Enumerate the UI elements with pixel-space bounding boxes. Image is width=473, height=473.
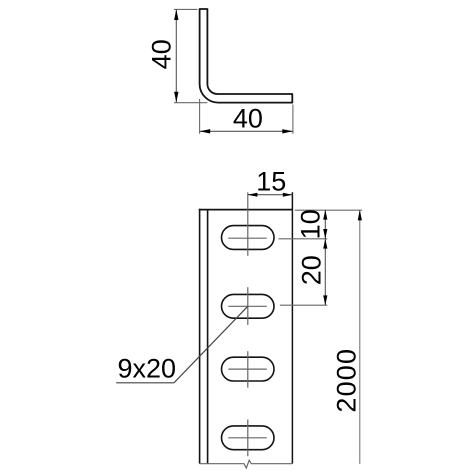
arrow right	[282, 129, 293, 133]
arrow up	[174, 9, 178, 20]
strip top edge	[199, 209, 293, 211]
arrow down	[323, 295, 327, 305]
arrow right (outward)	[283, 193, 293, 197]
top edge extension line to right (for dims 10 and 2000)	[295, 209, 362, 211]
vertical dim 40: extension line bottom	[174, 102, 207, 104]
svg-text:9x20: 9x20	[118, 353, 177, 383]
arrow up	[323, 239, 327, 249]
L profile outline	[200, 9, 293, 103]
slot 1 horizontal centerline dash	[228, 237, 266, 239]
arrow down	[323, 229, 327, 239]
svg-text:40: 40	[233, 103, 263, 133]
dim 10: dimension line	[324, 210, 326, 239]
arrow down	[174, 92, 178, 103]
strip bottom break line left	[200, 460, 293, 468]
slot 3 horizontal centerline dash	[228, 368, 266, 370]
slot 4 horizontal centerline dash	[228, 437, 266, 439]
vertical dim 40: extension line top	[174, 8, 198, 10]
strip right edge (extends up as extension for dim 15)	[291, 192, 293, 463]
slot 4 vertical centerline	[247, 420, 249, 457]
arrow left	[200, 129, 211, 133]
slot 3 vertical centerline	[247, 351, 249, 388]
svg-text:2000: 2000	[332, 348, 362, 413]
arrow left (outward)	[248, 193, 258, 197]
svg-text:10: 10	[296, 209, 326, 239]
dim 20: dimension line	[324, 239, 326, 305]
svg-text:15: 15	[256, 167, 286, 197]
leader underline	[116, 382, 174, 384]
dim 15: dimension line	[248, 194, 293, 196]
vertical dim 40: dimension line	[175, 9, 177, 102]
slot 4	[222, 426, 275, 450]
slot 1 vertical centerline (extends to dim 15)	[247, 192, 249, 255]
slot 1 center extension line to right	[279, 238, 328, 240]
svg-text:20: 20	[297, 255, 327, 285]
dim 2000: dimension line	[359, 210, 361, 464]
slot 1	[222, 226, 275, 250]
slot 2 vertical centerline	[247, 287, 249, 325]
strip left outer edge	[199, 209, 201, 464]
horizontal dim 40: dimension line	[200, 130, 293, 132]
arrow up	[323, 210, 327, 220]
horizontal dim 40: extension line right	[292, 105, 294, 134]
strip left inner fold edge	[207, 210, 209, 464]
slot 3	[222, 357, 275, 381]
leader diagonal to slot 2 center	[174, 306, 248, 383]
slot 2 horizontal centerline dash	[228, 305, 266, 307]
horizontal dim 40: extension line left	[199, 99, 201, 134]
slot 2	[222, 294, 275, 318]
slot 2 center extension line to right	[280, 304, 327, 306]
arrow up	[358, 210, 362, 221]
svg-text:40: 40	[147, 39, 177, 69]
